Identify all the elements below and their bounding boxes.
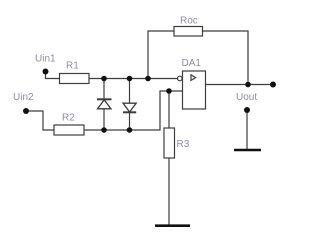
resistor R2 bbox=[54, 125, 84, 135]
ground right bbox=[234, 149, 261, 152]
wire feedback right bbox=[203, 31, 249, 85]
wire Uout ground lead bbox=[246, 110, 248, 150]
svg-text:Uin2: Uin2 bbox=[13, 92, 34, 103]
node ground terminal under Uout bbox=[244, 107, 250, 113]
node junction bottom-left bbox=[101, 127, 107, 133]
wire output net bbox=[206, 84, 274, 86]
diode VD2 bbox=[123, 103, 136, 112]
node junction top-left bbox=[101, 76, 107, 82]
node junction top-mid bbox=[127, 76, 133, 82]
node junction bottom-mid bbox=[127, 127, 133, 133]
op-amp triangle mark bbox=[191, 75, 196, 81]
svg-text:Uout: Uout bbox=[236, 92, 257, 103]
wire top net bbox=[89, 78, 177, 80]
op-amp U1 body DA1 bbox=[183, 71, 206, 109]
wire feedback loop bbox=[148, 31, 174, 79]
wire R3 top lead bbox=[168, 91, 170, 128]
op-amp inverting input circle bbox=[178, 76, 183, 81]
resistor Roc bbox=[174, 27, 203, 37]
svg-text:Uin1: Uin1 bbox=[35, 54, 56, 65]
wire Uin2 lead bbox=[26, 111, 54, 130]
svg-text:R3: R3 bbox=[177, 139, 190, 150]
wire Uin1 lead bbox=[46, 72, 61, 79]
node junction plus-input bbox=[166, 88, 172, 94]
resistor R1 bbox=[60, 74, 90, 84]
node junction top-right bbox=[145, 76, 151, 82]
node Uout terminal bbox=[270, 82, 276, 88]
node Uin1 terminal bbox=[43, 69, 49, 75]
svg-text:DA1: DA1 bbox=[182, 58, 202, 69]
svg-text:R2: R2 bbox=[62, 113, 75, 124]
svg-text:Roc: Roc bbox=[180, 16, 198, 27]
diode VD1 bbox=[97, 99, 112, 109]
wire diode VD1 top lead bbox=[103, 79, 105, 100]
ground bottom bbox=[155, 224, 190, 227]
wire diode VD2 top lead bbox=[129, 79, 131, 104]
node junction output-feedback bbox=[245, 82, 251, 88]
node Uin2 terminal bbox=[23, 108, 29, 114]
wire diode VD2 bottom lead bbox=[129, 112, 131, 130]
wire diode VD1 bottom lead bbox=[103, 109, 105, 130]
wire R3 bottom lead bbox=[168, 158, 170, 225]
resistor R3 bbox=[164, 128, 175, 158]
svg-text:R1: R1 bbox=[66, 61, 79, 72]
wire bottom net bbox=[84, 91, 183, 130]
